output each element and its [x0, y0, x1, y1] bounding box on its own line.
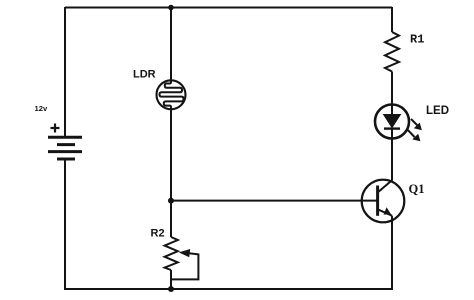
wire: R2 wiper loop: [171, 253, 198, 280]
svg-text:Q1: Q1: [409, 182, 425, 196]
wire: R1 to LED: [391, 72, 393, 115]
svg-text:12v: 12v: [35, 104, 48, 113]
wire: middle vertical base node to R2: [170, 201, 172, 237]
svg-text:R2: R2: [151, 228, 165, 240]
wire: Q1 emitter to bottom rail: [391, 216, 393, 290]
arrowhead: Q1 emitter: [384, 207, 392, 214]
node: bottom junction: [168, 286, 174, 292]
resistor R1 zigzag: [385, 32, 399, 72]
node: base junction: [168, 198, 174, 204]
wire: LED to Q1 collector: [391, 129, 393, 181]
wire: left vertical battery bottom lead: [64, 159, 66, 290]
resistor R2 (rheostat) zigzag: [165, 237, 178, 270]
arrow: LED light ray 1: [411, 119, 422, 130]
LDR photoresistor: [157, 80, 186, 109]
wire: base wire to Q1: [171, 200, 378, 202]
wire: left vertical battery top lead: [64, 7, 66, 137]
wire: right vertical top to R1: [391, 7, 393, 32]
arrowhead: R2 wiper: [179, 249, 190, 257]
wire: R2 bottom to bottom rail: [170, 270, 172, 289]
svg-text:LDR: LDR: [133, 69, 156, 81]
arrow: LED light ray 2: [408, 130, 421, 141]
wire: top rail from battery + to R1: [65, 7, 392, 9]
transistor Q1 (NPN): [362, 180, 405, 223]
LED D1: [375, 105, 409, 139]
wire: middle vertical top (node to LDR): [170, 8, 172, 82]
svg-text:R1: R1: [410, 33, 424, 47]
node: top junction: [168, 5, 174, 11]
wire: bottom rail: [64, 288, 392, 290]
svg-text:LED: LED: [426, 105, 449, 117]
battery B1 12v: [48, 124, 82, 160]
wire: middle vertical LDR to base node: [170, 109, 172, 201]
